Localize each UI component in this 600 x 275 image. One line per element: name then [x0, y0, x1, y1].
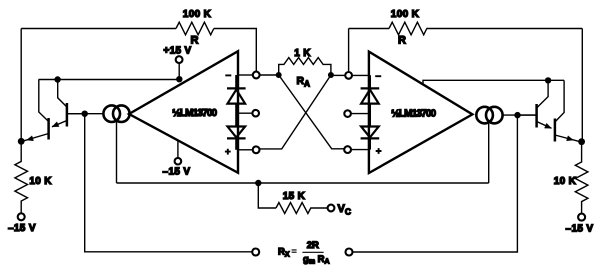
node right output emitter — [578, 138, 585, 145]
svg-text:100 K: 100 K — [183, 9, 212, 20]
node VC tap — [255, 180, 261, 186]
svg-text:100 K: 100 K — [391, 9, 420, 20]
svg-text:VC: VC — [338, 203, 351, 217]
svg-text:2R: 2R — [307, 240, 319, 251]
svg-text:10 K: 10 K — [29, 176, 52, 187]
resistor R3 10K left — [15, 141, 28, 213]
svg-text:–15 V: –15 V — [566, 224, 594, 235]
wire top left from corner to resistor R — [21, 28, 176, 30]
terminal RX right — [346, 249, 353, 256]
node +15V on amp edge — [176, 76, 182, 82]
diode D3 top right amp — [361, 75, 380, 126]
svg-text:+15 V: +15 V — [163, 46, 191, 57]
svg-text:R: R — [191, 35, 199, 47]
wire minus input right amp — [352, 74, 369, 76]
svg-text:RX: RX — [278, 246, 290, 258]
terminal minus input right — [345, 72, 352, 79]
wire right feedback rail vertical — [581, 29, 583, 142]
terminal diode bias left — [252, 110, 259, 117]
wire -15V stem left amp — [177, 141, 179, 159]
wire left output down to RX — [85, 114, 253, 252]
label minus input left amp — [225, 74, 231, 76]
wire diode bias tap left — [236, 112, 252, 114]
terminal +15V — [176, 56, 183, 63]
wire VC tap down — [258, 183, 276, 208]
label plus input left amp — [225, 149, 231, 155]
node Q1 collector left — [54, 76, 60, 82]
wire left amp output to darlington base — [68, 113, 104, 115]
transistor Q3 right darlington first — [518, 80, 552, 128]
node RA right — [328, 72, 334, 78]
wire V+ rail right — [423, 80, 564, 84]
svg-text:½LM13700: ½LM13700 — [391, 108, 436, 120]
wire minus terminal to RA left node — [260, 74, 279, 76]
resistor R4 10K right — [575, 142, 588, 214]
svg-text:1 K: 1 K — [294, 48, 311, 59]
current source symbol left amp output — [103, 105, 120, 122]
svg-text:gm RA: gm RA — [303, 254, 330, 266]
wire plus terminal to right amp — [351, 149, 369, 151]
wire +15V stem — [178, 63, 180, 79]
terminal plus input right — [344, 146, 351, 153]
wire cross from RA left node to right plus — [279, 75, 345, 149]
wire diode bias tap right — [351, 113, 370, 115]
terminal RX left — [252, 249, 259, 256]
label plus input right amp — [376, 148, 382, 154]
wire bias stem left amp — [116, 122, 118, 184]
svg-text:R: R — [398, 35, 406, 47]
svg-text:RA: RA — [297, 75, 311, 89]
wire bias rail — [117, 182, 489, 184]
svg-text:½LM13700: ½LM13700 — [172, 107, 217, 119]
wire right 100K feed down to minus input — [348, 29, 350, 72]
label minus input right amp — [375, 75, 381, 77]
wire right output down to RX — [353, 115, 518, 252]
wire 100K right to right rail — [427, 28, 583, 30]
diode D4 bottom right amp — [361, 127, 380, 150]
wire bias stem right amp — [488, 123, 490, 183]
diode D2 bottom left amp — [227, 127, 246, 150]
resistor R2 100K right — [389, 22, 427, 35]
resistor R1 100K left — [176, 22, 214, 35]
diode D1 top left amp — [227, 75, 246, 126]
wire 100K left to minus input — [214, 29, 256, 72]
wire right amp output to darlington base — [503, 114, 536, 116]
svg-text:10 K: 10 K — [554, 176, 577, 187]
transistor Q4 right darlington second — [555, 80, 582, 141]
resistor R5 15K — [276, 203, 328, 214]
wire top right corner to resistor — [349, 28, 389, 30]
svg-text:15 K: 15 K — [283, 191, 306, 202]
terminal -15V left bottom — [18, 213, 25, 220]
terminal -15V right bottom — [578, 214, 585, 221]
node RA left — [276, 72, 282, 78]
current source symbol right amp output — [476, 107, 493, 124]
wire minus input left amp — [238, 74, 253, 76]
node left output emitter — [18, 138, 25, 145]
terminal minus input left — [253, 72, 260, 79]
wire cross from RA right node to left plus — [259, 75, 331, 149]
node right amp output — [514, 112, 520, 118]
node left amp output — [82, 111, 88, 117]
svg-text:–15 V: –15 V — [8, 223, 36, 234]
terminal plus input left — [253, 146, 260, 153]
transistor Q2 left darlington second — [21, 80, 48, 141]
wire V+ rail left — [39, 79, 180, 81]
node Q3 collector right — [545, 77, 551, 83]
resistor RA 1K — [279, 58, 331, 75]
node minus right to RA — [331, 74, 345, 76]
op-amp U1 half LM13700 left triangle — [129, 51, 238, 173]
transistor Q1 left darlington first — [52, 80, 85, 127]
wire plus terminal to left amp — [238, 149, 253, 151]
wire left feedback rail vertical — [20, 29, 22, 142]
terminal -15V left amp — [175, 158, 182, 165]
terminal diode bias right — [344, 110, 351, 117]
svg-text:–15 V: –15 V — [163, 167, 191, 178]
label RX formula — [278, 240, 330, 266]
terminal VC — [328, 205, 335, 212]
op-amp U2 half LM13700 right triangle — [369, 52, 473, 173]
